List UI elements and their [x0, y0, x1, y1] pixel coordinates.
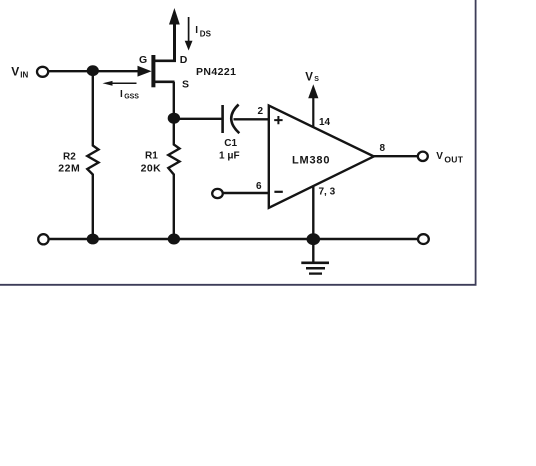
schematic frame border — [0, 0, 476, 285]
svg-text:8: 8 — [380, 143, 386, 154]
wire: Vin input to gate — [47, 70, 146, 72]
svg-text:22M: 22M — [58, 163, 80, 175]
svg-text:V: V — [436, 151, 443, 162]
wire: drain up to arrow — [173, 22, 176, 62]
svg-text:I: I — [195, 25, 198, 36]
svg-text:6: 6 — [256, 181, 262, 192]
svg-text:7, 3: 7, 3 — [319, 186, 336, 197]
wire: source down to node B — [173, 82, 175, 120]
arrowhead drain current up — [169, 8, 180, 25]
svg-text:1 μF: 1 μF — [219, 151, 240, 162]
svg-text:OUT: OUT — [444, 154, 463, 164]
node B (junction source/R1/C1) — [168, 113, 180, 124]
svg-text:S: S — [314, 76, 319, 83]
wire: C1 to pin 2 — [234, 118, 269, 120]
terminal rail left — [38, 234, 48, 244]
node D (R1 to rail) — [168, 234, 180, 245]
node E (ground junction) — [307, 233, 321, 245]
plus input mark — [274, 116, 282, 124]
transistor Q1 gate arrowhead — [138, 66, 152, 77]
minus input mark — [274, 191, 282, 193]
svg-text:PN4221: PN4221 — [196, 66, 236, 78]
wire: drain lead — [154, 59, 176, 62]
svg-text:IN: IN — [20, 70, 28, 79]
arrow IGSS (left) — [108, 82, 137, 84]
svg-text:D: D — [180, 54, 188, 66]
arrow IDS (down) — [188, 17, 190, 42]
svg-text:14: 14 — [319, 117, 331, 128]
wire: ground rail — [47, 238, 420, 241]
capacitor C1 right plate (curved) — [231, 105, 239, 134]
wire: node B to C1 — [174, 118, 222, 120]
svg-text:GSS: GSS — [124, 94, 139, 101]
svg-text:2: 2 — [258, 106, 264, 117]
svg-text:V: V — [305, 71, 313, 83]
svg-text:DS: DS — [200, 30, 212, 39]
resistor R2 (branch wire with zigzag) — [87, 71, 98, 239]
terminal pin 6 input — [212, 189, 223, 198]
svg-text:LM380: LM380 — [292, 154, 330, 166]
terminal rail right — [418, 234, 429, 244]
svg-text:C1: C1 — [224, 138, 237, 149]
arrowhead Vs up — [308, 84, 318, 98]
node C (R2 to rail) — [87, 234, 99, 245]
wire: Vs supply into pin 14 — [312, 98, 314, 128]
ground symbol — [312, 239, 314, 262]
svg-text:G: G — [139, 54, 147, 66]
resistor R1 (branch wire with zigzag) — [168, 118, 179, 239]
terminal Vin — [37, 67, 48, 77]
svg-text:S: S — [182, 78, 189, 90]
svg-text:V: V — [11, 65, 19, 79]
svg-text:R1: R1 — [145, 150, 158, 161]
wire: source lead — [154, 81, 175, 84]
wire: output pin 8 — [373, 155, 419, 157]
wire: pin 6 — [223, 192, 269, 194]
svg-text:20K: 20K — [141, 162, 161, 174]
node A (junction Vin/R2/gate) — [87, 65, 99, 76]
svg-text:R2: R2 — [63, 152, 76, 163]
svg-text:I: I — [120, 89, 123, 100]
wire: pins 7,3 to ground rail — [312, 186, 314, 240]
transistor Q1 channel bar — [151, 55, 155, 87]
terminal Vout — [418, 152, 428, 161]
capacitor C1 left plate — [221, 105, 224, 133]
op-amp U1 LM380 triangle — [269, 106, 374, 208]
